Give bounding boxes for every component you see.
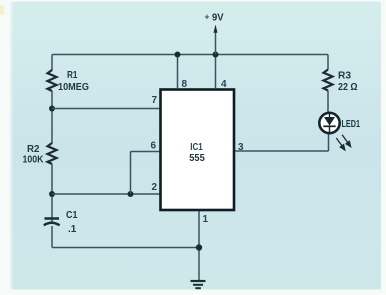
svg-text:6: 6 — [151, 141, 157, 152]
wire pin8 vertical — [177, 55, 179, 90]
ground — [191, 281, 206, 288]
wire left vertical lower (R2 to C1) — [51, 164, 53, 224]
decorative: pale yellow smudge top-left edge — [0, 5, 4, 15]
svg-text:4: 4 — [221, 79, 227, 90]
node junction pin1/bottom rail — [196, 244, 202, 250]
wire left vertical upper (rail to R1) — [51, 55, 53, 71]
wire bottom rail — [52, 247, 199, 249]
svg-text:7: 7 — [152, 95, 158, 106]
LED LED1 — [319, 112, 339, 134]
wire pin3 vertical to LED — [328, 134, 330, 151]
IC IC1 555 timer box — [161, 90, 235, 211]
node junction pin8 on rail — [175, 52, 181, 58]
wire R3 to LED — [327, 91, 329, 113]
wire pin6 horizontal — [131, 151, 161, 153]
LED light arrow left — [336, 138, 345, 150]
wire C1 bottom to rail — [51, 226, 53, 248]
capacitor C1 — [44, 219, 60, 226]
svg-text:1: 1 — [203, 214, 209, 225]
wire left vertical mid (R1 to R2) — [51, 91, 53, 144]
wire top rail — [52, 54, 328, 56]
svg-text:2: 2 — [152, 182, 158, 193]
svg-text:IC1: IC1 — [190, 142, 203, 153]
wire pin4 vertical — [215, 55, 217, 90]
svg-text:R1: R1 — [67, 70, 78, 81]
svg-text:.1: .1 — [68, 224, 77, 235]
node junction pin6 branch on pin2 wire — [128, 191, 134, 197]
wire pin7 horizontal — [52, 108, 160, 110]
svg-text:R2: R2 — [27, 144, 40, 155]
wire pin2 horizontal — [52, 193, 160, 195]
svg-text:555: 555 — [189, 153, 205, 164]
resistor R1 — [48, 70, 57, 91]
wire pin3 horizontal — [235, 150, 329, 152]
svg-text:9V: 9V — [212, 12, 224, 24]
resistor R2 — [48, 143, 57, 164]
svg-text:LED1: LED1 — [342, 119, 361, 130]
svg-text:+: + — [205, 12, 210, 22]
node junction R2/C1/pin2 — [49, 191, 55, 197]
svg-text:R3: R3 — [338, 71, 351, 82]
svg-text:100K: 100K — [23, 155, 45, 166]
svg-text:10MEG: 10MEG — [58, 82, 89, 93]
svg-text:22 Ω: 22 Ω — [338, 82, 358, 93]
wire pin6 vertical branch — [130, 152, 132, 195]
wire pin1 / ground stem — [198, 211, 200, 280]
wire right vertical (rail to R3) — [327, 55, 329, 70]
LED light arrow right — [342, 135, 351, 147]
svg-text:8: 8 — [182, 79, 188, 90]
node junction pin4/9V on rail — [213, 52, 219, 58]
svg-text:C1: C1 — [66, 210, 78, 221]
node junction R1/R2/pin7 — [49, 106, 55, 112]
resistor R3 — [324, 70, 333, 91]
power +9V arrow — [214, 25, 218, 55]
